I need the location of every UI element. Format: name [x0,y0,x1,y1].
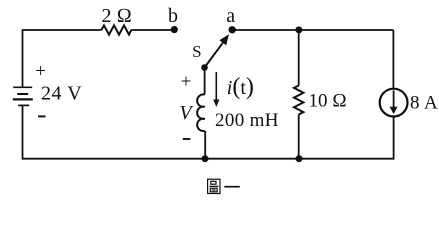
switch S pivot dot [201,64,208,71]
node junction dot (top of 10 ohm branch) [295,26,302,33]
wire: resistor R2 to bottom node [298,115,300,159]
svg-text:+: + [35,61,46,82]
wire: switch pivot down to inductor [204,68,206,95]
resistor R2 10 ohm (vertical zigzag) [294,86,303,115]
inductor L1 200 mH (3 left-bulging loops) [197,94,205,131]
node b (dot) [171,26,178,33]
right branch wire top: corner down to current source [392,30,394,88]
svg-text:S: S [192,42,201,61]
top wire: node a to top-right corner [232,29,393,31]
caption: Chinese character 圖 (figure), drawn as paths [208,179,220,193]
wire: resistor to node b [131,29,174,31]
caption: Chinese character 一 (one), drawn as path [224,186,240,188]
wire top-left: left corner to resistor R1 [23,30,102,88]
right branch wire bottom: current source to bottom-right corner [299,117,394,159]
resistor R1 2 ohm (horizontal zigzag) [101,25,131,34]
battery 24V [13,87,33,105]
battery minus sign [38,115,46,117]
svg-text:a: a [226,5,235,27]
node a (dot) [229,26,236,33]
svg-text:200 mH: 200 mH [215,110,279,131]
wire left bottom: battery to bottom-left corner [23,105,206,158]
current source arrow (downward) [393,90,395,108]
svg-text:b: b [168,5,178,27]
wire: inductor bottom to bottom node [204,131,206,159]
svg-text:8 A: 8 A [410,93,438,114]
bottom node dot (inductor branch) [202,155,209,162]
bottom wire middle segment [205,158,299,160]
bottom node dot (10 ohm branch) [296,155,303,162]
current source I1 8A (circle) [380,89,408,117]
svg-text:i(t): i(t) [227,74,254,100]
inductor minus sign [183,138,191,140]
svg-text:2 Ω: 2 Ω [102,5,132,27]
wire: top node down to resistor R2 [298,30,300,86]
current arrow i(t) [215,72,217,102]
svg-text:24 V: 24 V [41,82,82,104]
svg-text:+: + [181,72,192,93]
svg-text:10 Ω: 10 Ω [309,91,347,112]
switch S arm with arrowhead pointing to node a [205,43,223,68]
